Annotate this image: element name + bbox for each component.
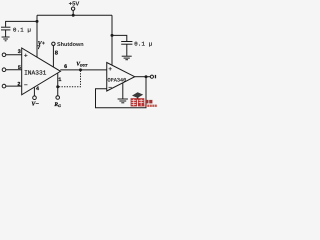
svg-text:−: − [24, 82, 28, 89]
wire pin 1 down to RG [57, 73, 59, 96]
wire top +5V rail [37, 14, 112, 16]
wire OPA340 output to terminal [135, 76, 151, 78]
terminal V- pin 4 [33, 96, 37, 100]
svg-text:7: 7 [37, 45, 40, 51]
terminal Shutdown [52, 42, 55, 45]
terminal input 5 [2, 68, 6, 72]
svg-text:V−: V− [31, 102, 39, 108]
wire input pin 5 [6, 69, 22, 71]
wire OPA340 V- to ground [122, 83, 124, 99]
node Vout dot [79, 68, 82, 71]
node +5V rail dot [72, 14, 75, 17]
ground under C1 [2, 36, 10, 38]
terminal +5V [71, 7, 74, 10]
watermark tiny red text row [145, 105, 157, 107]
wire right riser rail to OPA340 V+ [111, 15, 113, 65]
node C2 junction [111, 34, 114, 37]
terminal output [150, 75, 153, 78]
ground under C2 [122, 55, 132, 57]
wire input pin 3 [6, 54, 22, 56]
watermark red char 1 [131, 98, 137, 106]
watermark logo [131, 92, 157, 107]
label edge mark right of output terminal [155, 75, 156, 78]
svg-text:+: + [108, 66, 112, 73]
watermark small dark red text [145, 100, 148, 104]
op-amp U2 OPA340 triangle [107, 63, 135, 92]
junction dots [36, 14, 148, 88]
svg-text:0.1 µ: 0.1 µ [134, 41, 152, 48]
node C1 junction [36, 20, 39, 23]
svg-text:−: − [108, 85, 112, 92]
svg-text:OPA340: OPA340 [108, 77, 127, 83]
svg-text:8: 8 [55, 50, 59, 57]
svg-text:INA331: INA331 [24, 70, 47, 77]
watermark white strokes in chars [131, 99, 143, 106]
svg-text:2: 2 [17, 82, 20, 88]
wire C1 top lead [6, 21, 37, 26]
terminal RG [56, 96, 60, 100]
capacitor C2 0.1u plates [121, 41, 132, 43]
svg-text:+: + [24, 53, 28, 60]
wire pin 4 V- [33, 87, 35, 96]
terminal input 2 [2, 84, 6, 88]
terminal circles [2, 7, 153, 99]
wire output pin 6 to OPA340 [60, 69, 106, 71]
wire feedback loop output to - input [96, 77, 147, 108]
wire C2 bottom lead [126, 44, 128, 56]
svg-text:Shutdown: Shutdown [57, 42, 84, 48]
watermark cap shape [132, 92, 143, 98]
wire V+ drop to INA331 pin 7 [36, 21, 38, 57]
wire shutdown pin 8 [52, 46, 54, 68]
svg-text:6: 6 [64, 64, 67, 70]
svg-text:+5V: +5V [69, 0, 80, 7]
svg-text:0.1 µ: 0.1 µ [13, 27, 31, 34]
capacitor C1 0.1u plates [1, 26, 10, 28]
labels [13, 0, 156, 108]
wire C2 lead [112, 35, 127, 41]
terminal input 3 [2, 53, 6, 57]
svg-text:1: 1 [58, 77, 61, 83]
op-amp U1 INA331 triangle [22, 48, 61, 95]
watermark red char 2 [138, 98, 144, 106]
svg-text:5: 5 [18, 65, 21, 71]
wire input pin 2 [6, 85, 22, 87]
wire C1 bottom lead [5, 30, 7, 37]
wire left riser rail to C1 node [36, 15, 38, 21]
node output junction [145, 75, 148, 78]
node pin1 junction [56, 85, 59, 88]
svg-text:3: 3 [18, 49, 21, 55]
ground under OPA340 [118, 98, 128, 100]
wire dashed feedback pin1 to Vout [59, 70, 81, 86]
wire +5V terminal stub [72, 10, 74, 15]
